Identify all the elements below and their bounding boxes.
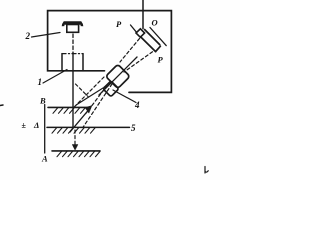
svg-text:B: B xyxy=(39,96,46,106)
svg-text:Δ: Δ xyxy=(33,120,39,130)
svg-text:2: 2 xyxy=(25,31,31,41)
wire: lamp beam dashed xyxy=(72,34,74,53)
dimension line B to A xyxy=(44,105,46,154)
label 2 xyxy=(25,31,61,41)
wire: beam through block to surfaces xyxy=(72,53,74,128)
mirror O line xyxy=(150,28,166,46)
condenser block 1 xyxy=(62,54,83,71)
telescope body 4 xyxy=(106,64,130,88)
wire: dashed ray cube to telescope xyxy=(120,39,140,63)
surface B hatched xyxy=(48,107,91,113)
wire: incident ray P xyxy=(131,25,137,32)
beamsplitter cube xyxy=(136,29,145,38)
telescope eyepiece 4 xyxy=(103,81,119,97)
plate P band xyxy=(140,30,160,52)
wire: arrowed reflected ray xyxy=(70,82,110,133)
svg-text:±: ± xyxy=(22,121,27,130)
enclosure box xyxy=(48,11,172,93)
stray mark bottom right xyxy=(205,167,208,174)
wire: ray telescope to surface B xyxy=(77,83,112,105)
svg-text:P: P xyxy=(116,19,122,29)
label plus-minus delta xyxy=(22,120,40,130)
svg-text:1: 1 xyxy=(38,77,43,87)
wire: telescope axis xyxy=(99,57,137,95)
svg-text:O: O xyxy=(152,18,158,28)
label 1 xyxy=(38,70,68,88)
label 4 xyxy=(113,90,140,110)
svg-text:5: 5 xyxy=(131,123,136,133)
svg-text:P: P xyxy=(158,55,164,65)
stray tick left edge xyxy=(0,104,3,107)
wire: dashed ray telescope to surface B left xyxy=(74,77,104,107)
wire: short dashed ray near beam xyxy=(76,84,89,97)
surface A hatched xyxy=(52,151,100,157)
wire: dashed ray plate to telescope xyxy=(124,52,153,72)
wire: dashed ray telescope to mid surface xyxy=(83,84,112,127)
lamp 2 xyxy=(62,22,83,33)
wire: top vertical beam xyxy=(142,0,144,29)
mid surface hatched with leader to 5 xyxy=(47,127,130,133)
svg-text:A: A xyxy=(41,154,48,164)
wire: dashed beam to surface A with arrow xyxy=(72,130,78,150)
